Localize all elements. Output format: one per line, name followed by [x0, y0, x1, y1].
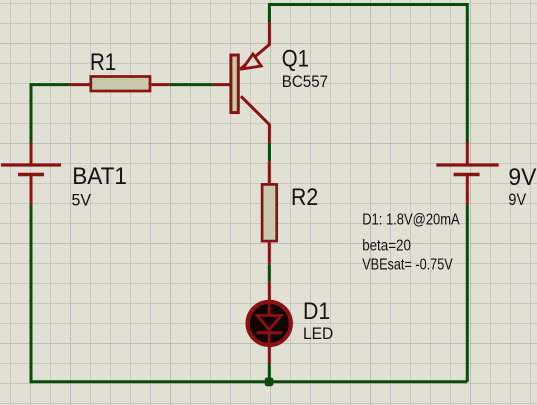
base bar: [231, 55, 238, 113]
svg-text:VBEsat= -0.75V: VBEsat= -0.75V: [362, 257, 453, 274]
long plate: [1, 163, 61, 166]
svg-text:R1: R1: [90, 49, 116, 76]
junction dot: [265, 378, 274, 387]
svg-text:BC557: BC557: [282, 72, 328, 91]
cathode bar: [257, 331, 283, 334]
svg-text:D1: D1: [303, 298, 330, 325]
long plate: [436, 163, 498, 166]
svg-text:9V: 9V: [508, 164, 536, 191]
LED D1: [248, 281, 291, 364]
transistor Q1: [213, 22, 270, 143]
wire: left vertical green upper: [30, 85, 33, 144]
wire: base wire right green: [170, 83, 213, 86]
diode anode line: [268, 302, 271, 316]
battery 9V (right): [436, 142, 498, 204]
short plate: [454, 173, 480, 177]
svg-text:BAT1: BAT1: [72, 163, 127, 190]
short plate: [18, 173, 44, 177]
collector lead diagonal: [241, 96, 269, 142]
svg-text:LED: LED: [303, 324, 333, 343]
wire: right side green lower: [466, 204, 469, 382]
wire: right side green upper: [466, 3, 469, 143]
wire: left vertical green lower: [30, 204, 33, 383]
diode triangle: [257, 316, 281, 330]
svg-text:D1: 1.8V@20mA: D1: 1.8V@20mA: [362, 211, 460, 228]
wire: collector green segment: [268, 143, 271, 162]
wire: base wire left green: [30, 83, 69, 86]
svg-text:R2: R2: [291, 184, 318, 211]
svg-text:Q1: Q1: [282, 45, 309, 72]
resistor R2: [262, 161, 277, 264]
battery BAT1: [1, 143, 61, 205]
svg-text:beta=20: beta=20: [362, 238, 411, 255]
wire: R2-LED green segment: [268, 264, 271, 281]
wire: emitter vertical green: [268, 3, 271, 23]
wire: bottom rail: [31, 380, 467, 383]
emitter lead diagonal: [240, 22, 269, 69]
svg-text:5V: 5V: [72, 191, 92, 210]
resistor R1: [69, 77, 170, 92]
svg-text:9V: 9V: [508, 190, 526, 209]
wire: top rail: [269, 3, 467, 6]
wire: LED-rail green segment: [268, 363, 271, 382]
emitter arrow: [243, 54, 262, 69]
base pin: [213, 83, 230, 86]
